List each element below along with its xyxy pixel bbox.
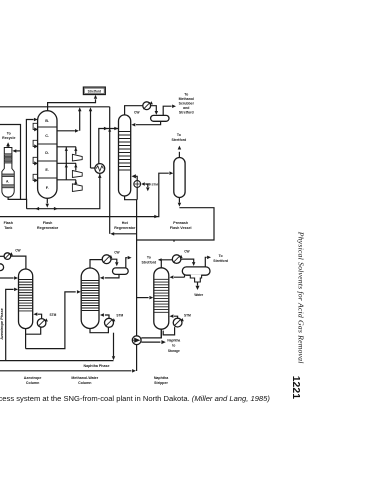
svg-text:Flash Vessel: Flash Vessel bbox=[170, 226, 192, 230]
svg-text:Prewash: Prewash bbox=[173, 221, 188, 225]
svg-text:Methanol-Water: Methanol-Water bbox=[71, 376, 98, 380]
flash regenerator column bbox=[38, 111, 57, 199]
wire: exchanger to hot regenerator feed bbox=[99, 129, 119, 164]
funnel letdown units right of flash regenerator bbox=[57, 146, 76, 148]
svg-text:Scrubber: Scrubber bbox=[179, 102, 195, 106]
wire: prewash bottoms bbox=[178, 198, 180, 203]
condenser CW circle (methanol/water) bbox=[90, 260, 102, 268]
svg-text:cess system at the SNG-from-co: cess system at the SNG-from-coal plant i… bbox=[0, 394, 270, 403]
wire: main vertical from prewash line to pump bbox=[136, 240, 138, 371]
svg-text:Naphtha: Naphtha bbox=[167, 338, 180, 342]
drum (stripper overhead) with water boot bbox=[182, 267, 210, 275]
wire: pump to stripper bottom bbox=[141, 329, 161, 338]
svg-text:CW: CW bbox=[184, 249, 189, 253]
prewash flash vessel bbox=[174, 158, 185, 198]
wire: methanol/water bottoms down bbox=[113, 333, 115, 357]
wire: feed into section B bbox=[26, 120, 33, 200]
svg-text:STM: STM bbox=[50, 313, 57, 317]
cooler CW circle (hot regen) bbox=[143, 102, 151, 110]
svg-text:Hot: Hot bbox=[122, 221, 129, 225]
wire: flash regenerator bottoms header bbox=[27, 174, 100, 209]
wire: azeotrope bottoms to methanol/water column bbox=[26, 292, 76, 349]
svg-text:Stripper: Stripper bbox=[154, 381, 168, 385]
svg-text:Storage: Storage bbox=[168, 349, 180, 353]
svg-text:Water: Water bbox=[194, 293, 203, 297]
svg-text:Stretford: Stretford bbox=[142, 261, 157, 265]
svg-text:Naphtha Phase: Naphtha Phase bbox=[84, 364, 110, 368]
wire: feed down to flash tank bbox=[0, 125, 21, 200]
pump circle with flow arrow bbox=[132, 336, 141, 345]
wire: stripper overhead bbox=[159, 260, 173, 268]
exchanger U1 lean/rich bbox=[95, 164, 105, 174]
letdown brackets on flash regenerator left side bbox=[33, 123, 38, 129]
svg-text:Regenerator: Regenerator bbox=[114, 226, 136, 230]
wire: naphtha phase lines L1 L2 bbox=[0, 360, 114, 362]
svg-text:and: and bbox=[183, 106, 189, 110]
wire: long line to prewash feed riser bbox=[0, 173, 169, 216]
svg-text:To: To bbox=[177, 133, 181, 137]
Stretford destination box bbox=[83, 87, 105, 94]
wire: stripper feed from riser bbox=[137, 297, 149, 299]
svg-text:Physical Solvents for Acid Gas: Physical Solvents for Acid Gas Removal bbox=[296, 231, 305, 364]
wire: flash tank bottoms bbox=[8, 197, 27, 209]
wire: prewash overhead to Stretford bbox=[178, 152, 180, 158]
svg-text:D.: D. bbox=[45, 151, 49, 155]
svg-text:Flash: Flash bbox=[43, 221, 52, 225]
drum (methanol/water overhead) bbox=[113, 268, 129, 275]
wire Y2 from left edge with risers bbox=[0, 106, 110, 108]
svg-text:STM: STM bbox=[184, 314, 191, 318]
svg-text:To: To bbox=[219, 254, 223, 258]
wire: hot regenerator overhead bbox=[125, 106, 143, 115]
svg-text:Azeotrope: Azeotrope bbox=[24, 376, 42, 380]
wire: column bottom stub bbox=[46, 198, 48, 203]
wire: hot regenerator bottoms bbox=[125, 196, 137, 240]
reboiler (hot regen) bbox=[136, 187, 138, 199]
svg-text:Recycle: Recycle bbox=[2, 136, 15, 140]
svg-text:to: to bbox=[172, 344, 175, 348]
flash tank internal bands bbox=[2, 174, 14, 177]
svg-text:Column: Column bbox=[78, 381, 91, 385]
reboiler STM (stripper) bbox=[163, 327, 174, 335]
svg-text:Azeotrope Phase: Azeotrope Phase bbox=[0, 307, 4, 339]
reflux pump circle (cut off at page edge) bbox=[0, 264, 4, 271]
svg-text:To: To bbox=[147, 255, 151, 259]
azeotrope column bbox=[19, 269, 33, 329]
svg-text:B.: B. bbox=[45, 119, 49, 123]
wire: lean riser bbox=[109, 107, 111, 234]
svg-text:Stretford: Stretford bbox=[179, 111, 194, 115]
reboiler STM (methanol/water) bbox=[90, 327, 108, 332]
svg-text:CW: CW bbox=[15, 249, 20, 253]
svg-text:To: To bbox=[184, 93, 188, 97]
svg-text:To: To bbox=[7, 131, 11, 135]
wire: drum vapor to Stretford bbox=[205, 257, 206, 267]
wire: azeotrope feeds bbox=[0, 277, 14, 279]
svg-text:C.: C. bbox=[45, 134, 49, 138]
wire: riser from exchanger to Y2 bbox=[91, 110, 95, 168]
reboiler STM (azeotrope) bbox=[26, 327, 41, 349]
wire: reflux return (stripper) bbox=[174, 275, 185, 277]
svg-text:F.: F. bbox=[46, 186, 49, 190]
flash tank neck stripes bbox=[4, 154, 12, 156]
svg-text:Methanol: Methanol bbox=[179, 97, 194, 101]
wire: stripper bottom stub bbox=[160, 329, 162, 338]
svg-text:1221: 1221 bbox=[290, 376, 302, 400]
svg-text:E.: E. bbox=[45, 168, 49, 172]
wire: reflux return (methanol/water) bbox=[105, 274, 119, 278]
svg-text:CW: CW bbox=[114, 251, 119, 255]
svg-text:Regenerator: Regenerator bbox=[37, 226, 59, 230]
wire: reflux return to column bbox=[136, 121, 161, 124]
svg-text:STM: STM bbox=[116, 313, 123, 317]
wire: naphtha to storage arrow bbox=[141, 341, 160, 343]
naphtha stripper column bbox=[154, 268, 169, 329]
wire: drum vapor to methanol scrubber bbox=[163, 106, 171, 115]
svg-text:Tank: Tank bbox=[4, 226, 12, 230]
svg-text:Stretford: Stretford bbox=[213, 259, 228, 263]
methanol/water column bbox=[81, 268, 99, 329]
svg-text:CW: CW bbox=[134, 110, 140, 114]
svg-text:Column: Column bbox=[26, 381, 39, 385]
condenser CW circle (stripper) bbox=[172, 255, 181, 264]
svg-text:A.: A. bbox=[6, 180, 9, 184]
flash tank vessel bbox=[2, 148, 14, 198]
wire: cooler to drum bbox=[151, 106, 157, 112]
condenser CW circle (azeotrope) bbox=[4, 253, 11, 260]
drum (hot regen overhead) bbox=[151, 115, 169, 121]
wire: water draw bbox=[197, 282, 199, 286]
wire: riser from section C stub to Y2 bbox=[57, 110, 80, 131]
wire: drum to Stretford bbox=[126, 258, 128, 268]
svg-text:Stretford: Stretford bbox=[88, 90, 102, 94]
hot regenerator column bbox=[119, 115, 131, 196]
svg-text:Flash: Flash bbox=[4, 221, 13, 225]
wire: flash regenerator overhead to Stretford box bbox=[48, 99, 96, 111]
svg-text:Stretford: Stretford bbox=[172, 138, 187, 142]
svg-text:Naphtha: Naphtha bbox=[154, 376, 169, 380]
